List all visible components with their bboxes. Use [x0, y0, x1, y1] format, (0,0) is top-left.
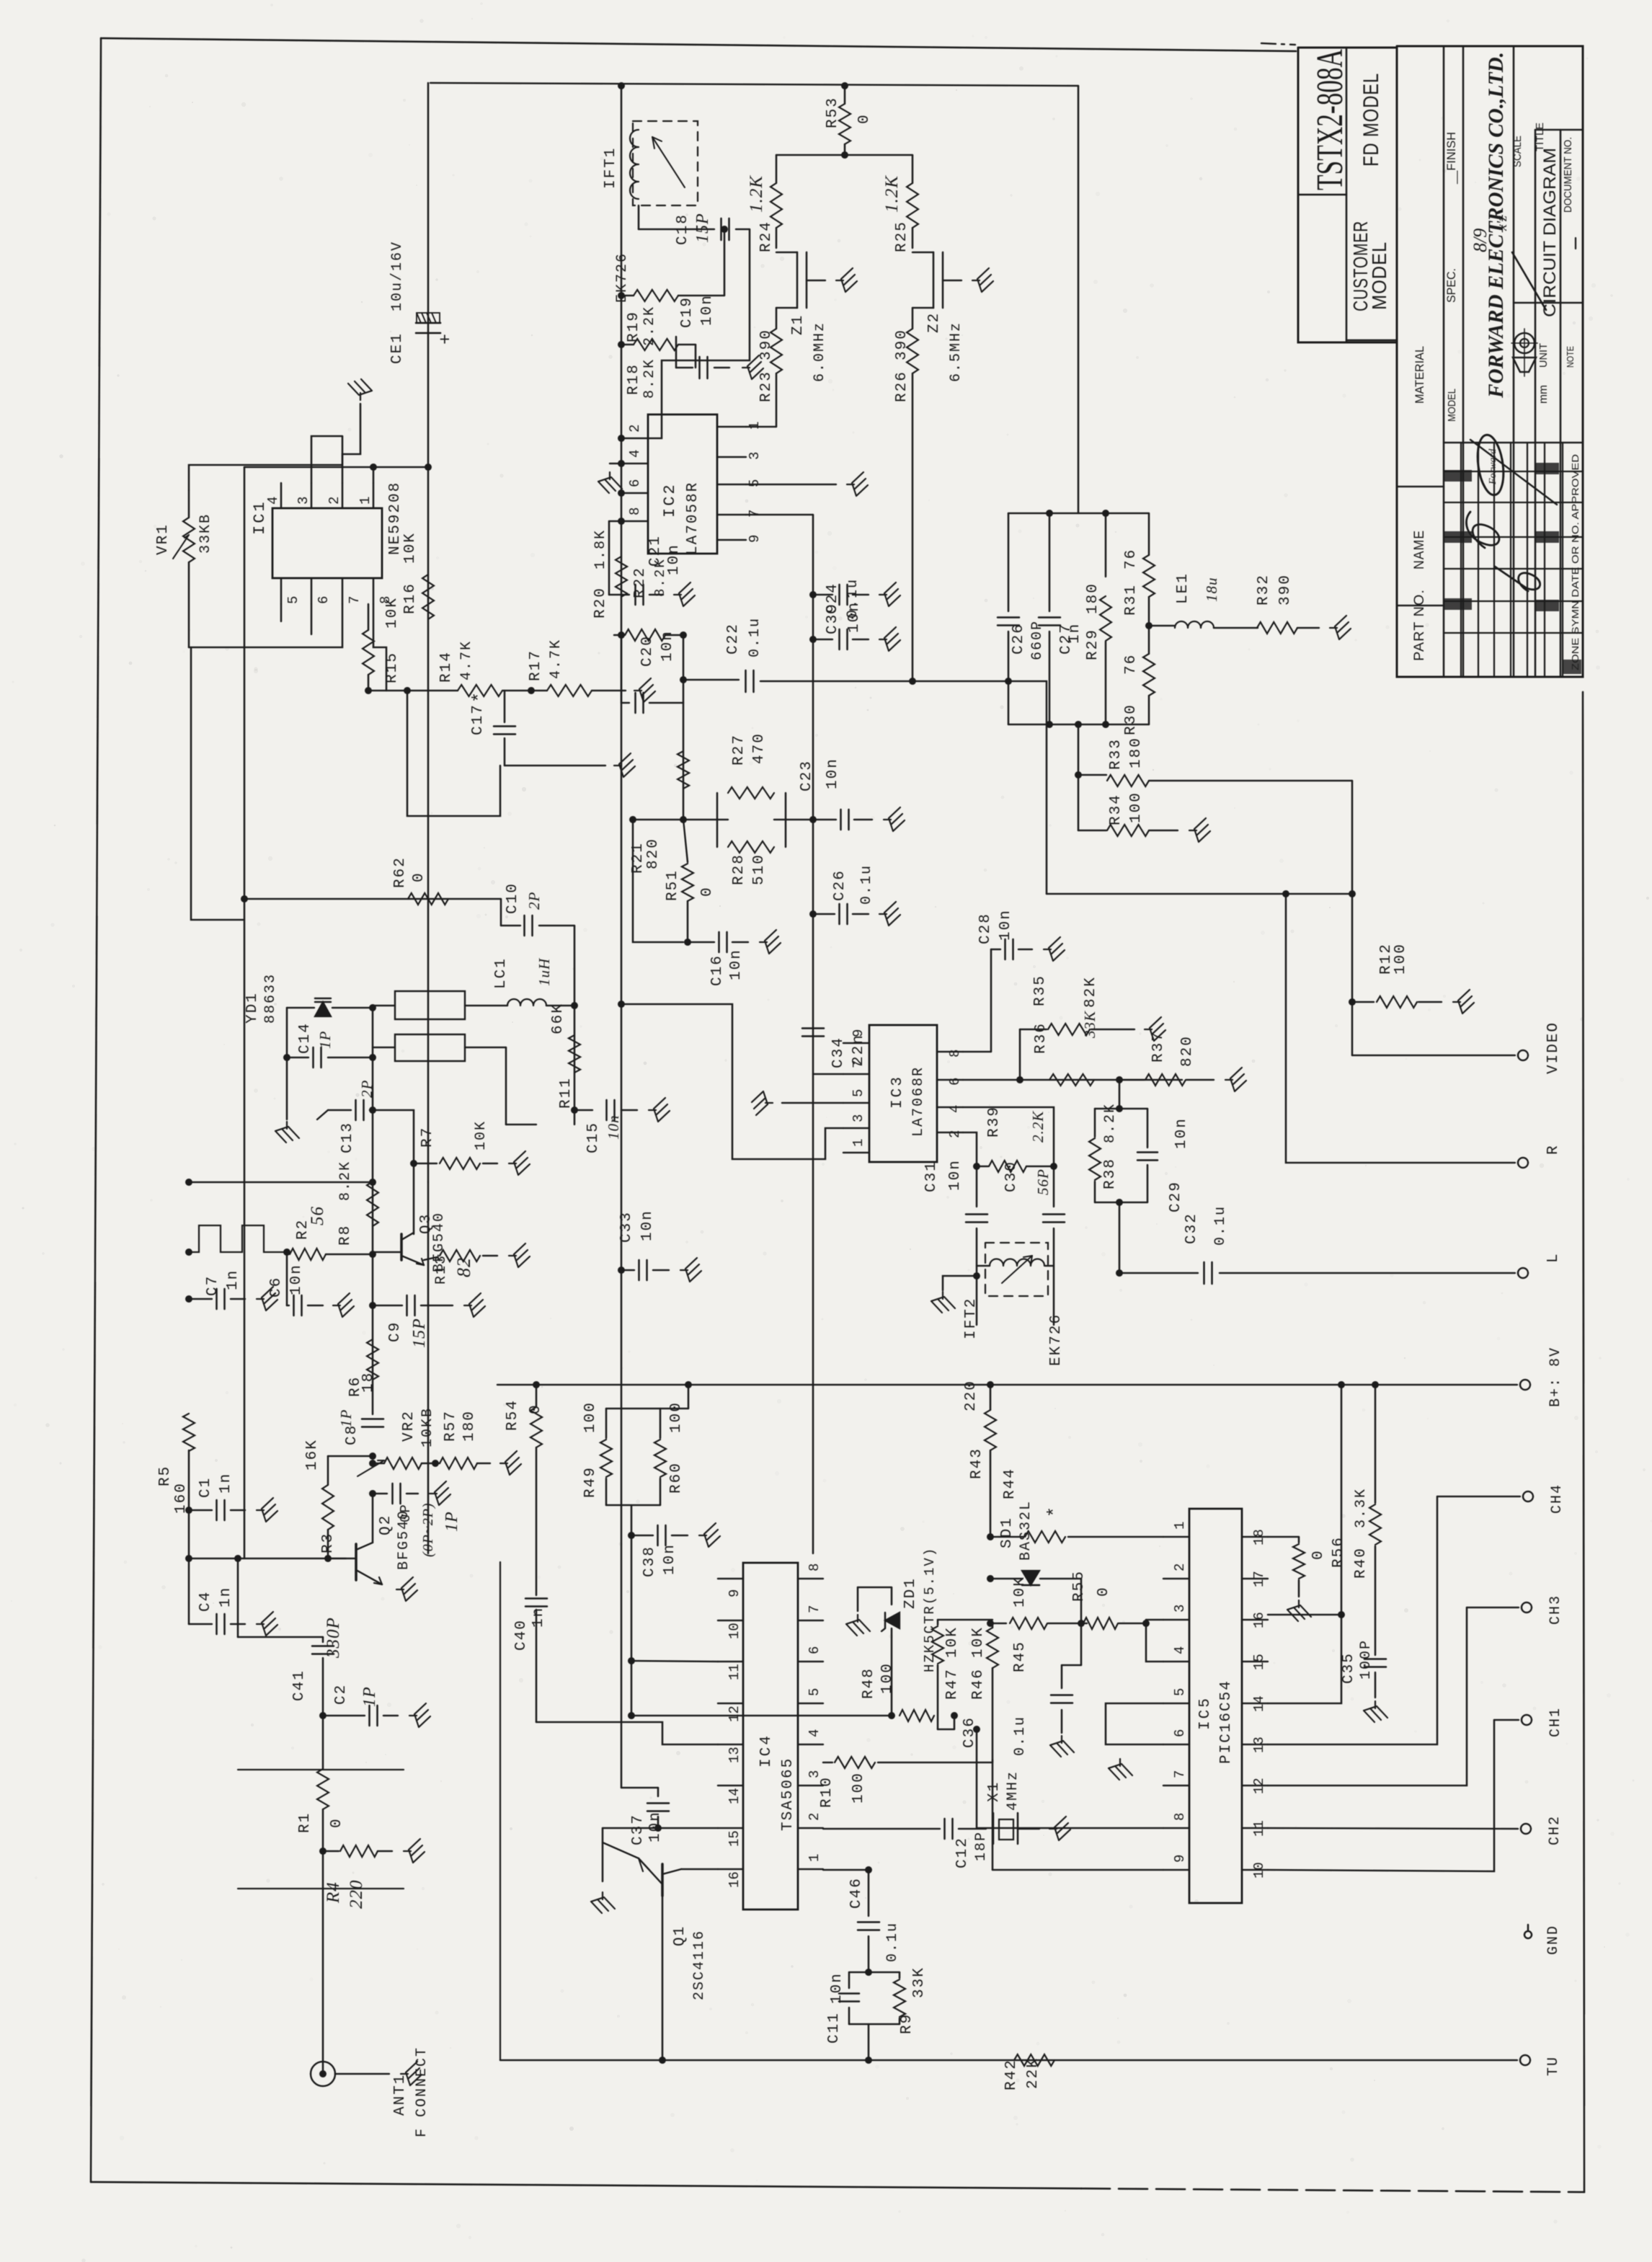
svg-text:R4: R4: [324, 1881, 343, 1904]
junction: [865, 2057, 872, 2064]
capacitor C39 10n: [813, 601, 869, 649]
svg-text:C13: C13: [339, 1122, 356, 1153]
junction: [324, 1555, 332, 1562]
resistor R6 18: [347, 1339, 378, 1397]
capacitor C22 0.1u: [683, 617, 1008, 692]
table header marks: [1443, 463, 1559, 611]
svg-text:X1: X1: [986, 1781, 1003, 1802]
svg-text:1: 1: [1172, 1522, 1188, 1530]
title block main grid: [1397, 46, 1583, 677]
svg-text:R23: R23: [758, 371, 775, 402]
svg-text:1: 1: [358, 497, 373, 505]
wire: [631, 1715, 892, 1716]
resistor R21 820: [630, 751, 689, 874]
ground: [1050, 1736, 1074, 1757]
svg-text:10KB: 10KB: [419, 1407, 436, 1447]
svg-text:LE1: LE1: [1175, 572, 1191, 604]
document dash: [1575, 238, 1576, 249]
ground: [1364, 1701, 1387, 1722]
svg-text:3: 3: [296, 497, 311, 505]
svg-text:VR1: VR1: [155, 523, 172, 555]
wire: [992, 1869, 1163, 1871]
ground: [396, 1577, 417, 1601]
wire: [963, 1079, 1182, 1081]
capacitor C46 0.1u: [848, 1870, 901, 1972]
wire: [746, 484, 836, 485]
node B+ 8V: [1520, 1347, 1564, 1407]
svg-text:4: 4: [947, 1105, 963, 1113]
junction: [809, 636, 817, 643]
ground: [348, 379, 372, 400]
ground: [404, 1839, 425, 1863]
svg-text:R: R: [1545, 1144, 1562, 1155]
op-amp IC1 NE59208: [251, 482, 404, 604]
capacitor C6 10n: [268, 1252, 323, 1316]
resistor R45 10K: [990, 1576, 1081, 1672]
svg-text:R3: R3: [320, 1533, 337, 1553]
junction: [809, 910, 817, 918]
wire: [1268, 1720, 1494, 1871]
junction: [185, 1248, 192, 1256]
svg-text:0.1u: 0.1u: [747, 617, 763, 657]
capacitor C11 / resistor R9: [826, 1966, 928, 2060]
svg-text:820: 820: [1179, 1035, 1196, 1067]
svg-text:12: 12: [727, 1706, 742, 1722]
ground: [500, 1451, 521, 1475]
svg-text:6: 6: [316, 596, 332, 604]
svg-text:MODEL: MODEL: [1368, 241, 1390, 310]
svg-text:10K: 10K: [944, 1626, 961, 1658]
junction: [809, 816, 817, 823]
resistor R3 16K: [304, 1439, 373, 1558]
svg-text:R20: R20: [592, 587, 609, 618]
svg-text:4: 4: [807, 1729, 822, 1737]
junction: [319, 1712, 327, 1719]
junction: [629, 816, 636, 823]
junction: [283, 1248, 290, 1256]
svg-text:R26: R26: [894, 371, 910, 402]
capacitor C38 10n: [631, 1525, 688, 1577]
svg-text:88633: 88633: [262, 973, 279, 1024]
junction: [1016, 1076, 1023, 1083]
resistor R10 100: [819, 1757, 992, 1808]
title CIRCUIT DIAGRAM: [1540, 148, 1560, 317]
resistor R40 3.3K: [1353, 1385, 1381, 1655]
svg-text:13: 13: [1251, 1737, 1267, 1753]
wire: [603, 1827, 718, 1829]
svg-text:SPEC.: SPEC.: [1444, 268, 1458, 303]
junction: [721, 226, 728, 233]
svg-text:10n: 10n: [825, 758, 841, 789]
svg-text:6.5MHz: 6.5MHz: [948, 321, 964, 382]
ground: [931, 1292, 955, 1313]
wire: [189, 1181, 373, 1183]
svg-text:C32: C32: [1184, 1212, 1200, 1244]
svg-text:6: 6: [947, 1078, 963, 1086]
svg-text:MODEL: MODEL: [1446, 389, 1458, 422]
svg-text:82K: 82K: [1083, 976, 1099, 1008]
svg-text:18: 18: [1251, 1529, 1267, 1545]
potentiometer VR1 33KB: [155, 490, 214, 647]
wire: [342, 404, 360, 483]
svg-text:R31: R31: [1123, 584, 1140, 616]
svg-text:R48: R48: [861, 1667, 877, 1699]
junction: [618, 1267, 625, 1274]
svg-text:0: 0: [329, 1817, 345, 1828]
svg-text:82: 82: [453, 1257, 474, 1277]
svg-text:C39: C39: [825, 603, 841, 634]
svg-text:R53: R53: [825, 97, 841, 128]
resistor R26 390: [894, 308, 918, 681]
svg-text:10n: 10n: [998, 909, 1014, 941]
svg-text:180: 180: [1128, 737, 1145, 768]
capacitor C5 trim 0P-2P 1P: [373, 1483, 461, 1557]
ground: [884, 807, 905, 831]
svg-text:100P: 100P: [1358, 1639, 1375, 1680]
node R: [1518, 1144, 1562, 1168]
capacitor C26b 0.1u: [813, 864, 875, 924]
resistor R31 76: [1123, 513, 1155, 626]
svg-text:R37: R37: [1150, 1031, 1167, 1063]
svg-text:1P: 1P: [316, 1031, 334, 1049]
svg-text:22n: 22n: [851, 1034, 867, 1065]
svg-text:SD1: SD1: [999, 1517, 1016, 1548]
svg-text:NAME: NAME: [1412, 530, 1427, 569]
svg-text:10n: 10n: [666, 544, 683, 575]
svg-text:10n: 10n: [662, 1543, 678, 1575]
svg-text:0: 0: [411, 871, 427, 882]
node L: [1518, 1252, 1562, 1278]
resistor R32 390: [1256, 574, 1319, 634]
wire: [633, 820, 683, 942]
svg-text:IFT1: IFT1: [603, 147, 619, 189]
svg-text:R34: R34: [1108, 794, 1124, 825]
wire: [681, 1868, 718, 1870]
capacitor C23 10n: [799, 758, 872, 830]
svg-text:9: 9: [727, 1589, 742, 1597]
svg-text:C30: C30: [1003, 1161, 1020, 1192]
wire: [238, 1769, 404, 1770]
svg-text:15P: 15P: [410, 1318, 429, 1348]
svg-text:IC3: IC3: [889, 1075, 906, 1109]
junction: [1338, 1381, 1345, 1388]
label R48 100: [861, 1662, 896, 1699]
wire: [662, 1894, 663, 2060]
ground: [257, 1287, 277, 1310]
svg-text:mm: mm: [1537, 385, 1550, 404]
svg-text:UNIT: UNIT: [1537, 343, 1550, 368]
svg-text:R44: R44: [1002, 1468, 1018, 1499]
resistor R20 1.8K: [592, 529, 627, 618]
svg-text:NE59208: NE59208: [387, 482, 404, 555]
capacitor C33 10n: [618, 1210, 669, 1280]
svg-text:C2: C2: [333, 1684, 350, 1705]
svg-text:11: 11: [1251, 1820, 1267, 1837]
capacitor C13 2P: [317, 1080, 376, 1153]
junction: [973, 1163, 980, 1170]
svg-text:R49: R49: [582, 1466, 599, 1498]
svg-text:100: 100: [1128, 791, 1145, 823]
stripline resonators LC1: [373, 991, 536, 1125]
wire: [497, 1384, 1517, 1385]
capacitor C19 10n: [676, 294, 729, 378]
ground: [275, 1122, 299, 1143]
junction: [1075, 771, 1082, 779]
svg-text:33K: 33K: [1081, 1011, 1098, 1039]
svg-text:R30: R30: [1123, 704, 1140, 735]
junction: [1349, 998, 1356, 1006]
resistor R54 0: [505, 1385, 544, 1595]
junction: [241, 895, 248, 902]
wire: [191, 647, 244, 920]
svg-text:CH3: CH3: [1547, 1595, 1564, 1625]
svg-text:R14: R14: [438, 651, 455, 683]
capacitor C41 330P: [238, 1558, 343, 1716]
svg-text:13: 13: [727, 1747, 742, 1763]
zener diode ZD1 HZK5CTR: [858, 1547, 938, 1716]
capacitor C9 15P: [373, 1295, 453, 1348]
wire: [782, 1102, 843, 1104]
svg-text:10K: 10K: [970, 1626, 987, 1658]
inductor LC1 1uH: [507, 999, 574, 1006]
svg-text:R45: R45: [1012, 1641, 1029, 1672]
svg-text:66K: 66K: [550, 1003, 567, 1034]
wire: [977, 1729, 1163, 1828]
resistor R24 1.2K: [747, 155, 782, 252]
svg-text:5: 5: [285, 596, 301, 604]
company logo oval: [1474, 433, 1506, 497]
svg-text:4: 4: [627, 450, 643, 458]
node CH2: [1268, 1815, 1563, 1845]
resistor R46 10K: [970, 1623, 998, 1870]
svg-text:0.1u: 0.1u: [1212, 1205, 1229, 1246]
svg-text:6: 6: [627, 479, 643, 487]
svg-text:C19: C19: [679, 296, 696, 328]
junction: [369, 1302, 376, 1309]
svg-text:8.2K: 8.2K: [337, 1161, 354, 1201]
svg-text:76: 76: [1123, 654, 1140, 675]
wire: [954, 1716, 955, 1729]
svg-text:IC5: IC5: [1197, 1696, 1214, 1730]
resistor R43 220: [963, 1380, 996, 1537]
ground: [333, 1293, 354, 1317]
capacitor C30 56P: [1003, 1161, 1065, 1325]
capacitor C1 1n: [189, 1473, 245, 1520]
svg-text:5: 5: [851, 1089, 866, 1097]
capacitor C4 1n: [189, 1587, 245, 1634]
junction: [1282, 890, 1289, 897]
resistor R56 0: [1268, 1536, 1347, 1597]
svg-text:R16: R16: [402, 582, 419, 614]
resistor R44: [990, 1468, 1163, 1543]
svg-text:C29: C29: [1168, 1181, 1184, 1212]
resistor R18 8.2K: [621, 339, 696, 399]
svg-text:IC2: IC2: [661, 482, 679, 518]
svg-text:100: 100: [879, 1662, 896, 1694]
node GND: [1524, 1925, 1562, 1955]
svg-text:R15: R15: [384, 652, 401, 683]
capacitor C12 18P: [823, 1819, 990, 1868]
svg-text:18P: 18P: [973, 1831, 990, 1861]
wire: [244, 898, 501, 900]
svg-text:2: 2: [627, 425, 643, 433]
junction: [370, 464, 377, 471]
junction: [1145, 622, 1153, 629]
wire: [776, 154, 912, 156]
wire: [1047, 893, 1352, 895]
wire: [992, 1760, 993, 1762]
svg-text:GND: GND: [1545, 1925, 1562, 1955]
wire: [943, 1276, 977, 1290]
wire: [189, 604, 342, 647]
meander inductor: [189, 1225, 287, 1252]
junction: [987, 1575, 994, 1582]
revision table footer labels: [1563, 454, 1581, 674]
svg-text:BAS32L: BAS32L: [1018, 1500, 1034, 1561]
wire: [631, 1661, 718, 1662]
junction: [951, 1712, 958, 1719]
svg-text:10K: 10K: [402, 532, 419, 564]
transistor Q3 BFG540: [373, 1212, 448, 1272]
junction: [185, 1295, 192, 1303]
wire: [311, 604, 312, 634]
junction: [618, 292, 625, 299]
resistor R5 160: [157, 1414, 195, 1514]
ground: [752, 1091, 773, 1115]
node VIDEO: [1352, 1021, 1562, 1074]
capacitor C15 10n: [574, 1100, 637, 1153]
wire: [1268, 1385, 1341, 1703]
svg-text:180: 180: [461, 1410, 478, 1442]
wire: [244, 466, 428, 468]
junction: [618, 435, 625, 525]
svg-text:Z2: Z2: [926, 312, 943, 333]
svg-text:180: 180: [1085, 582, 1101, 614]
junction: [1102, 721, 1109, 728]
svg-text:R10: R10: [819, 1776, 835, 1808]
svg-text:100: 100: [582, 1401, 599, 1433]
svg-text:1: 1: [807, 1854, 822, 1862]
svg-text:16: 16: [727, 1871, 742, 1888]
svg-text:C31: C31: [923, 1161, 940, 1192]
wire: [427, 1182, 429, 1553]
wire: [1078, 86, 1079, 513]
label LC1 1uH: [493, 957, 553, 989]
svg-text:10n: 10n: [728, 949, 745, 980]
junction: [1372, 1381, 1379, 1388]
svg-text:C1: C1: [197, 1477, 214, 1498]
ground: [257, 1612, 277, 1636]
svg-text:0: 0: [528, 1403, 544, 1414]
resistor R48 100: [900, 1710, 934, 1721]
svg-text:__FINISH: __FINISH: [1444, 132, 1458, 185]
capacitor C2 1P: [323, 1684, 398, 1726]
ground: [1049, 1817, 1070, 1840]
node CH3: [1467, 1595, 1564, 1625]
junction: [987, 1620, 994, 1627]
wire: [812, 515, 814, 1553]
svg-text:TITLE: TITLE: [1534, 123, 1546, 151]
junction: [680, 816, 687, 823]
label 1P: [337, 1409, 355, 1427]
svg-text:R9: R9: [899, 2013, 915, 2034]
ground: [614, 753, 635, 777]
junction: [369, 1004, 376, 1011]
handwritten date marks: [1470, 216, 1510, 252]
resistor R16 10K: [402, 532, 434, 619]
svg-text:5: 5: [747, 479, 763, 487]
svg-text:IFT2: IFT2: [963, 1298, 980, 1339]
svg-text:8: 8: [627, 507, 643, 515]
svg-text:5: 5: [1172, 1688, 1188, 1696]
junction: [809, 591, 817, 598]
svg-text:CIRCUIT DIAGRAM: CIRCUIT DIAGRAM: [1540, 148, 1560, 317]
wire: [746, 514, 813, 515]
svg-text:C40: C40: [513, 1619, 530, 1651]
svg-text:16: 16: [1251, 1612, 1267, 1628]
svg-text:C21: C21: [647, 535, 664, 567]
junction: [654, 1824, 662, 1832]
svg-text:2.2K: 2.2K: [641, 306, 658, 346]
svg-text:YD1: YD1: [244, 992, 261, 1024]
junction: [618, 341, 625, 348]
junction: [618, 82, 625, 89]
svg-text:1.2K: 1.2K: [747, 175, 766, 213]
junction: [319, 1848, 327, 1855]
ceramic filter Z2 6.5MHz: [912, 252, 964, 382]
svg-text:10n: 10n: [605, 1115, 622, 1140]
capacitor C14 1P: [287, 1022, 373, 1068]
svg-text:0.1u: 0.1u: [884, 1922, 901, 1962]
wire: [631, 1505, 632, 1716]
svg-text:*: *: [1044, 1507, 1065, 1517]
wire: [813, 1073, 843, 1075]
svg-text:PART NO.: PART NO.: [1412, 589, 1427, 661]
junction: [425, 464, 432, 471]
svg-text:ZD1: ZD1: [902, 1577, 919, 1609]
resistor R1 0: [297, 1716, 345, 2074]
svg-text:1n: 1n: [530, 1607, 547, 1628]
node CH1: [1494, 1707, 1564, 1737]
resistor R4 220: [323, 1845, 392, 1909]
svg-text:R54: R54: [505, 1399, 521, 1431]
svg-text:76: 76: [1123, 549, 1140, 569]
svg-text:0: 0: [699, 886, 716, 897]
svg-text:R25: R25: [894, 221, 910, 252]
svg-text:8/9: 8/9: [1470, 229, 1491, 252]
svg-text:C46: C46: [848, 1877, 865, 1909]
svg-text:1.8K: 1.8K: [592, 529, 609, 569]
svg-text:R19: R19: [626, 311, 642, 342]
resistor R37 820: [1119, 1031, 1214, 1086]
resistor R14 4.7K: [438, 640, 502, 696]
diode SD1 BAS32L: [990, 1500, 1081, 1623]
svg-text:10K: 10K: [384, 597, 401, 629]
svg-text:C38: C38: [641, 1545, 658, 1577]
svg-text:1P: 1P: [443, 1511, 461, 1532]
capacitor C7 1n: [189, 1269, 245, 1309]
svg-text:3: 3: [851, 1114, 866, 1122]
resistor R25 1.2K: [882, 155, 918, 252]
crystal X1 4MHz: [986, 1770, 1039, 1844]
junction: [571, 1106, 578, 1114]
svg-text:10n: 10n: [699, 294, 716, 326]
ground: [1453, 990, 1474, 1014]
resistor R19 2.2K: [621, 229, 724, 346]
wire: [188, 1450, 190, 1624]
svg-text:0.1u: 0.1u: [1012, 1716, 1029, 1756]
svg-text:0: 0: [856, 113, 873, 124]
